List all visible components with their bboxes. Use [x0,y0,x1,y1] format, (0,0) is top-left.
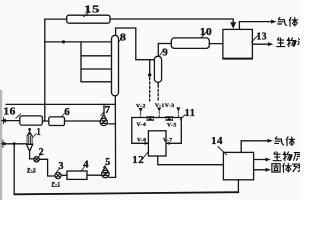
condenser 13 [223,29,253,58]
feeder 1 [27,128,34,159]
leader slash 6 [61,113,64,117]
wire: gas outlet of 14 [241,141,268,153]
svg-text:V-6: V-6 [137,138,146,144]
svg-text:7: 7 [105,104,111,116]
collector 12 [148,131,166,156]
leader slash 4 [81,167,85,172]
svg-text:16: 16 [3,105,16,117]
injector 5 [102,167,109,178]
valve V-7 [166,142,170,145]
wire: top main line left of 15 [45,18,67,20]
wire: drop into 13 with arrow [232,19,234,23]
arrow into manifold (V-3) [176,107,180,111]
column 8 [112,35,119,95]
leader slash 14 [218,147,227,155]
wire: bottom recycle line [14,192,238,194]
svg-text:12: 12 [132,154,144,166]
svg-text:3: 3 [58,160,64,172]
svg-text:13: 13 [257,31,268,43]
wire: bottom outlet of 14 [254,169,266,171]
wire: ladder vertical [80,42,82,82]
svg-text:1: 1 [37,126,42,138]
valve V-6 [145,142,149,145]
arrow into manifold (V-2) [139,108,143,113]
valve V-4 [147,117,154,121]
leader slash 10 [202,31,208,38]
wire: top main line right of 15 to condenser 13 [110,18,233,20]
svg-text:8: 8 [120,32,127,44]
leader slash 8 [119,39,121,42]
wire: manifold left channel [132,118,149,144]
reactor 14 [223,152,253,179]
wire: ladder line 3 [81,68,112,70]
wire: main riser column8 bottom to mixer line [114,96,116,178]
column 9 [154,56,161,82]
blower 16 [20,116,43,125]
heater 6 [49,117,65,126]
wire: left main vertical [44,19,46,121]
leader slash 13 [252,36,259,42]
leader slash 1 [33,133,37,137]
svg-text:4: 4 [83,159,89,171]
cooler 10 [171,38,209,49]
wire: tee down from pipe [149,60,151,74]
svg-text:V-5: V-5 [167,122,177,128]
wire: drop from cross line into 7 [103,104,105,114]
wire: column 9 overhead to cooler 10 [158,44,171,57]
node dot feed tee [13,142,16,145]
node dot on branch [62,40,65,43]
wire: ladder line 4 [81,81,112,83]
wire: dashed line V-2 [149,78,151,102]
leader slash 15 [84,12,90,17]
wire: 4 to 5 [87,174,102,176]
wire: 12 to reactor 14 [158,156,224,165]
label bio-oil (sheng wu you) [277,38,307,47]
wire: pump 2 to pump 3 [39,159,55,176]
wire: 5 to riser [109,176,116,178]
wire: lower cross line [6,103,116,105]
label biomass (sheng wu zhi) [273,152,302,161]
heat exchanger 15 [67,15,110,23]
wire: 3 to 4 [61,174,67,176]
leader slash 16 [16,114,21,119]
wire: cooler 10 to condenser 13 [209,43,223,45]
svg-text:5: 5 [105,156,110,168]
manifold 11 top line [132,117,182,119]
wire + arrow: outlet to left [5,120,20,122]
wire: feed line [5,143,27,145]
wire: branch to column 8 [45,41,112,43]
leader slash 7 [101,112,104,116]
wire: mid outlet of 14 [254,159,266,161]
wire: manifold right channel [166,118,181,144]
wire: dashed line V-1/V-3 [157,85,159,100]
wire: 16 to 6 [42,120,48,122]
label solid residue (gu ti can zha) [272,163,302,172]
wire: column 9 bottom stub [157,82,159,84]
wire: column 8 overhead pipe to column 9 [116,28,155,60]
leader slash 11 [180,115,185,120]
pump 3 [55,172,61,178]
leader slash 5 [103,164,106,168]
svg-text:V-4: V-4 [137,122,147,128]
valve V-5 [166,117,173,121]
leader slash 2 [38,154,41,158]
leader slash 9 [160,52,163,56]
wire: left recycle drop [13,144,15,195]
svg-text:11: 11 [185,107,196,119]
svg-text:V-7: V-7 [163,138,172,144]
scan edge smudge left [0,90,2,200]
svg-text:9: 9 [162,46,168,58]
arrow into manifold (V-1) [157,107,161,111]
blower 7 [100,115,107,126]
wire: liquid outlet of 13 [252,43,268,45]
wire: gas outlet of 13 [239,22,271,30]
wire: 6 to blower 7 [65,120,101,122]
wire: ladder line 2 [81,55,112,57]
wire: 14 bottom to recycle line [237,180,239,192]
svg-text:6: 6 [64,106,70,118]
feed arrow [0,142,5,146]
node dot [148,73,151,76]
preheater 4 [67,171,87,179]
leader slash 3 [56,168,59,172]
svg-text:14: 14 [211,135,223,147]
label gas (qi ti) [278,17,298,26]
label gas (qi ti) [275,137,295,146]
pump 2 [34,157,39,162]
leader slash 12 [143,152,148,159]
svg-text:15: 15 [84,3,100,15]
wire: 7 to riser [107,123,115,125]
